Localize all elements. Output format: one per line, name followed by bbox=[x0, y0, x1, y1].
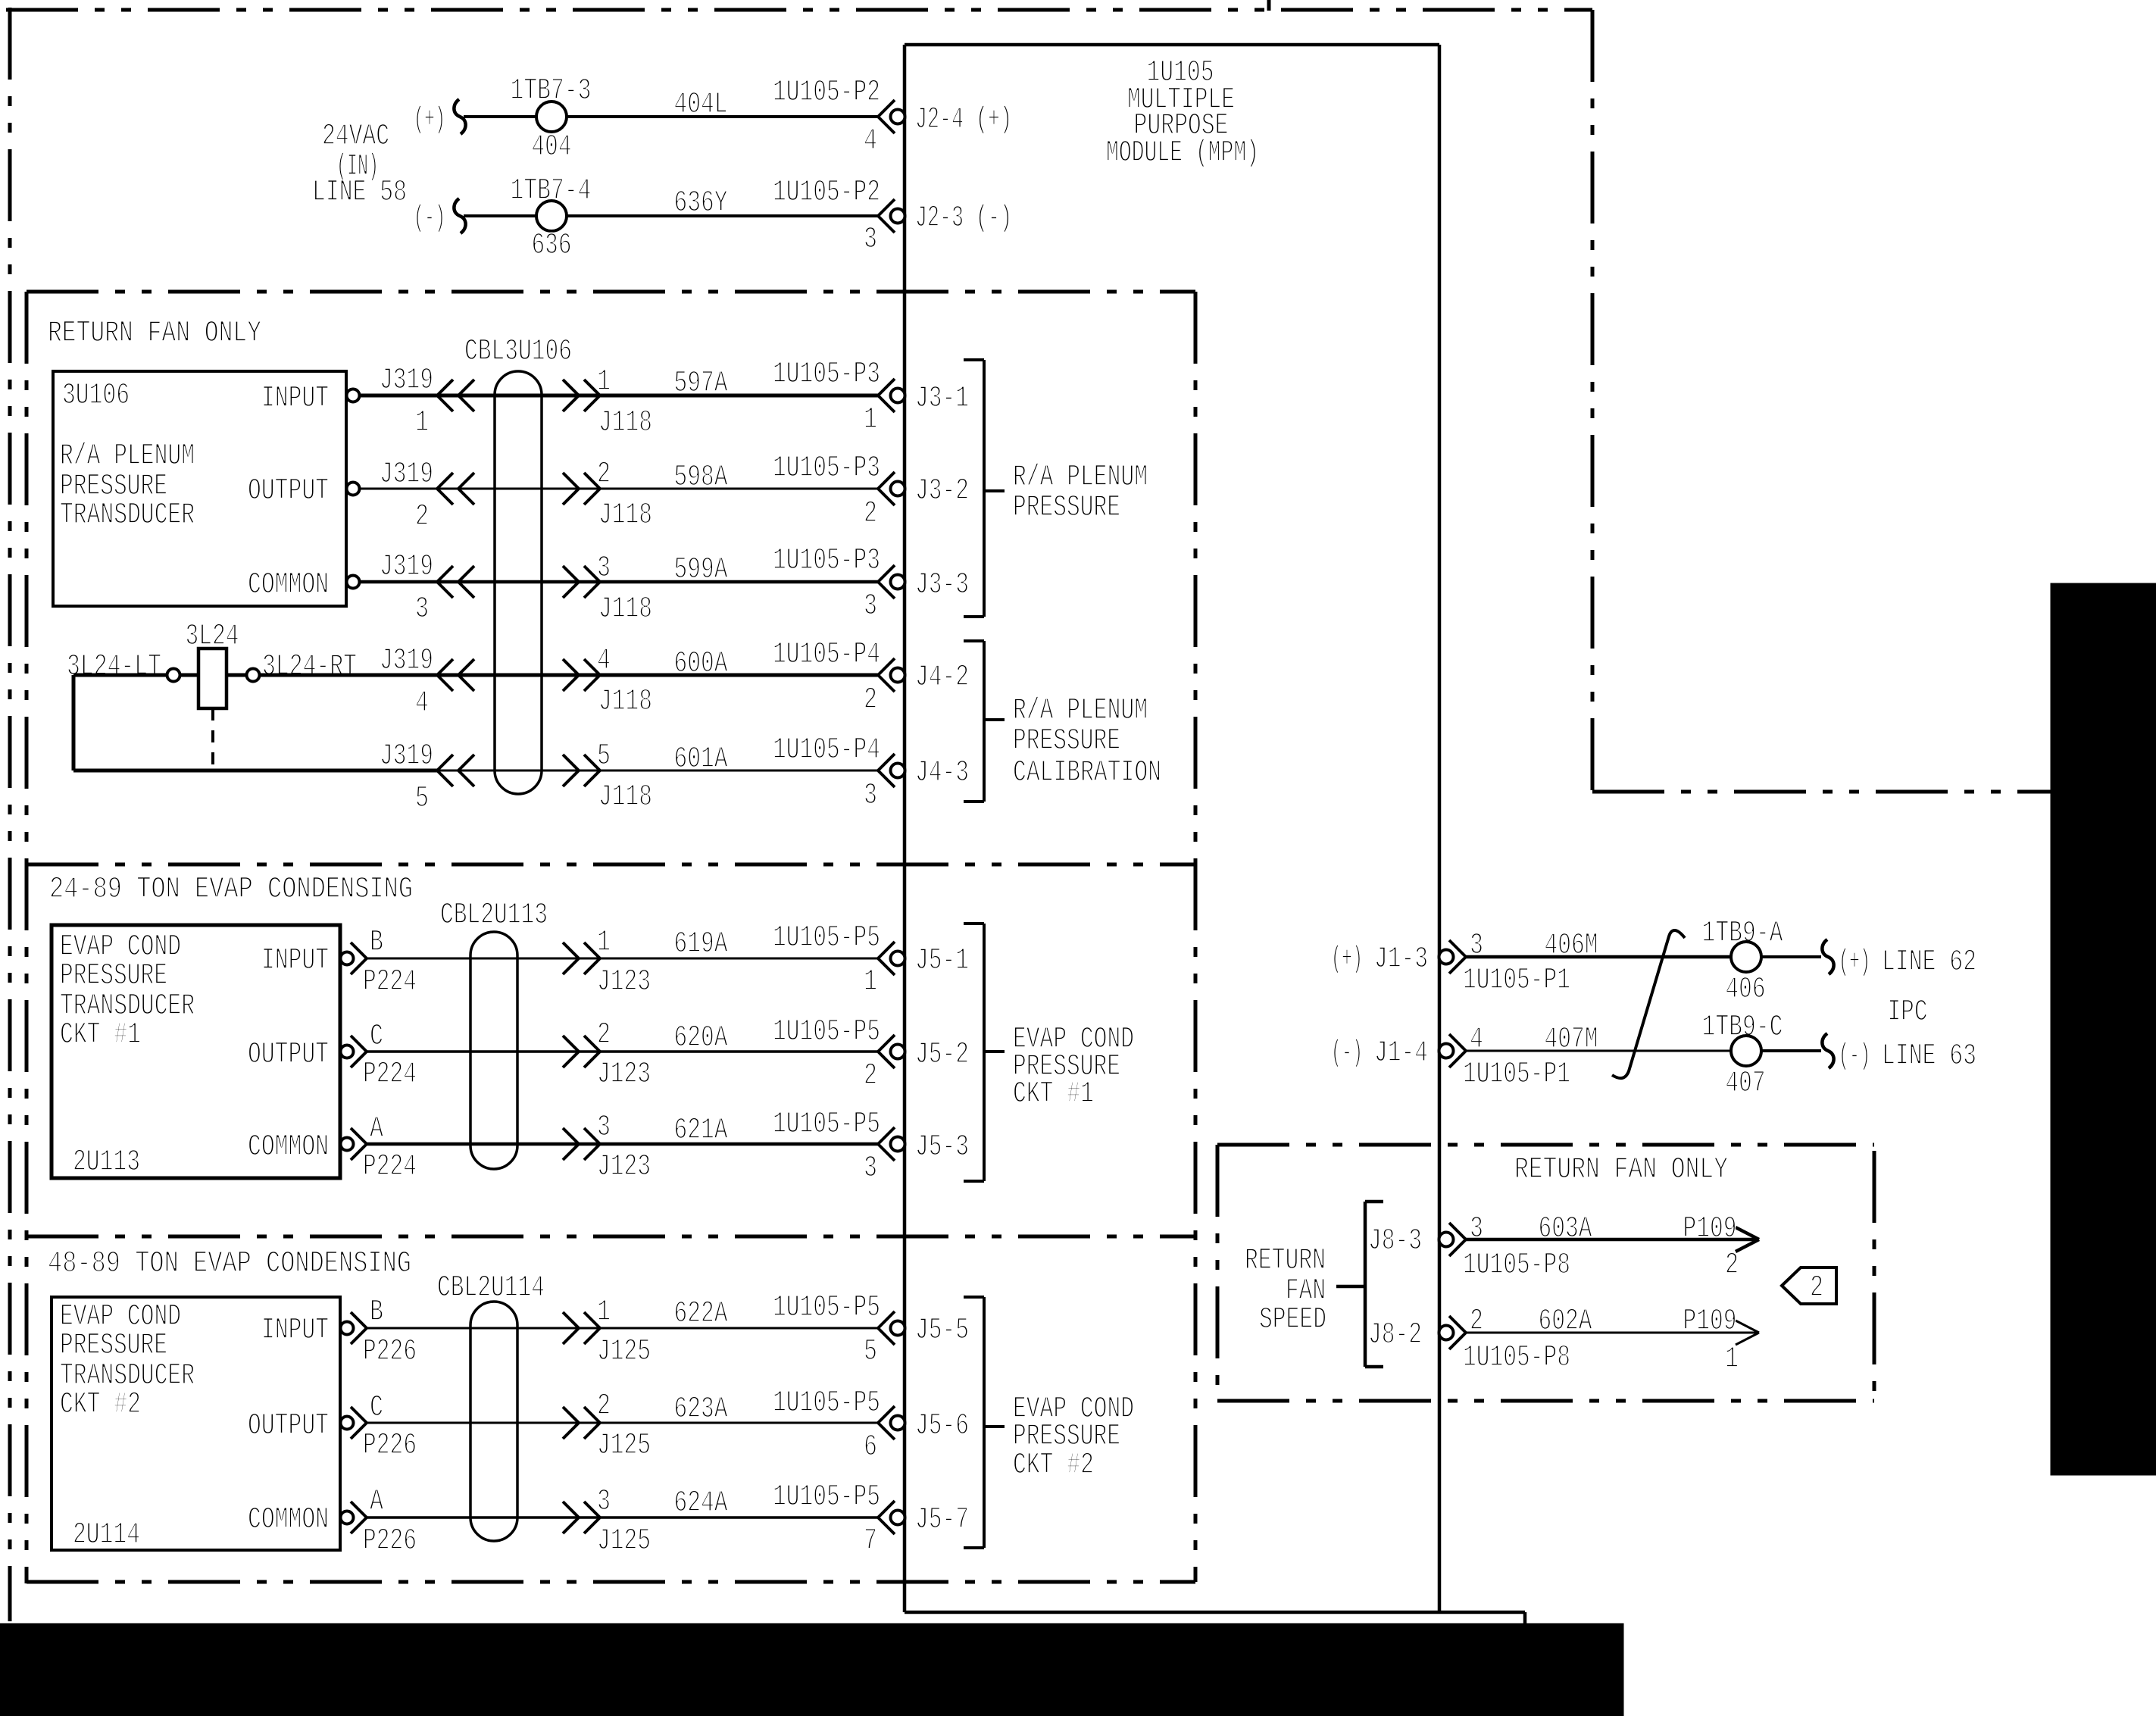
connector J5-1 bbox=[878, 942, 895, 958]
bracket EVAP COND PRESSURE CKT #1 bbox=[983, 924, 986, 1181]
svg-text:J118: J118 bbox=[598, 685, 652, 719]
svg-text:P226: P226 bbox=[363, 1429, 417, 1463]
svg-text:3: 3 bbox=[1470, 1212, 1483, 1246]
svg-text:J319: J319 bbox=[380, 364, 433, 398]
svg-text:B: B bbox=[370, 1296, 383, 1330]
svg-text:3: 3 bbox=[864, 223, 877, 257]
switch 3L24 actuator dashed bbox=[211, 708, 214, 770]
wire 597A from 3U106 to cable bbox=[359, 394, 878, 398]
svg-text:J3-3: J3-3 bbox=[915, 568, 969, 602]
svg-text:PRESSURE: PRESSURE bbox=[1013, 491, 1120, 525]
svg-text:1U105-P8: 1U105-P8 bbox=[1463, 1249, 1570, 1283]
svg-text:INPUT: INPUT bbox=[261, 382, 329, 416]
pin 3U106 circle row 1 bbox=[347, 389, 360, 402]
svg-text:J1-4: J1-4 bbox=[1374, 1036, 1428, 1071]
svg-text:J118: J118 bbox=[598, 406, 652, 440]
black bar bottom bbox=[0, 1624, 1623, 1716]
connector J319 pin 3 bbox=[437, 566, 453, 582]
svg-text:B: B bbox=[370, 926, 383, 960]
svg-text:CBL3U106: CBL3U106 bbox=[464, 335, 572, 369]
svg-text:3: 3 bbox=[1470, 929, 1483, 963]
region 24-89 TON border top bbox=[27, 863, 1195, 867]
svg-text:2: 2 bbox=[864, 497, 877, 531]
connector J123 pin 3 bbox=[584, 1128, 600, 1144]
svg-text:P224: P224 bbox=[363, 1150, 417, 1184]
svg-text:TRANSDUCER: TRANSDUCER bbox=[60, 499, 195, 533]
svg-text:4: 4 bbox=[597, 644, 611, 678]
right RETURN FAN ONLY region border bbox=[1217, 1143, 1874, 1147]
black bar right bbox=[2051, 583, 2156, 1475]
svg-text:619A: 619A bbox=[674, 927, 728, 961]
svg-text:2U113: 2U113 bbox=[73, 1146, 140, 1180]
svg-text:623A: 623A bbox=[674, 1392, 728, 1427]
svg-text:1: 1 bbox=[597, 926, 611, 960]
svg-text:404: 404 bbox=[532, 130, 572, 164]
outer phantom border top bbox=[6, 8, 1592, 12]
connector J123 pin 1 bbox=[584, 942, 600, 958]
svg-text:CKT #2: CKT #2 bbox=[1013, 1449, 1094, 1483]
bracket R/A PLENUM PRESSURE bbox=[983, 360, 986, 617]
connector J5-3 bbox=[878, 1127, 895, 1144]
svg-text:1: 1 bbox=[1725, 1342, 1739, 1377]
connector J1-4 bbox=[1439, 1044, 1454, 1058]
svg-text:P226: P226 bbox=[363, 1524, 417, 1558]
connector J118 pin 1 bbox=[584, 380, 600, 395]
svg-text:2: 2 bbox=[864, 683, 877, 717]
connector J125 pin 3 bbox=[584, 1502, 600, 1518]
svg-text:SPEED: SPEED bbox=[1259, 1303, 1326, 1337]
svg-text:J8-2: J8-2 bbox=[1368, 1318, 1422, 1352]
svg-text:CBL2U113: CBL2U113 bbox=[440, 899, 548, 933]
svg-text:R/A PLENUM: R/A PLENUM bbox=[1013, 694, 1148, 728]
svg-text:1U105-P2: 1U105-P2 bbox=[773, 176, 880, 210]
svg-text:A: A bbox=[370, 1485, 383, 1519]
svg-text:3: 3 bbox=[597, 1111, 611, 1145]
connector J319 pin 2 bbox=[437, 473, 453, 489]
connector J319 pin 4 bbox=[437, 659, 453, 675]
svg-text:600A: 600A bbox=[674, 647, 728, 681]
cable CBL3U106 oval bbox=[495, 371, 542, 794]
pin 2U114 A connector bbox=[341, 1511, 354, 1524]
svg-text:1TB7-4: 1TB7-4 bbox=[511, 174, 592, 208]
svg-text:J125: J125 bbox=[597, 1429, 651, 1463]
svg-text:COMMON: COMMON bbox=[248, 1130, 329, 1164]
wire 636Y segment to MPM bbox=[567, 214, 878, 217]
svg-text:7: 7 bbox=[864, 1524, 877, 1558]
svg-text:J118: J118 bbox=[598, 592, 652, 627]
crossover slash IPC bbox=[1612, 930, 1685, 1078]
svg-text:2U114: 2U114 bbox=[73, 1518, 140, 1552]
svg-text:624A: 624A bbox=[674, 1486, 728, 1521]
wire 602A to P109 bbox=[1466, 1332, 1759, 1334]
svg-text:A: A bbox=[370, 1112, 383, 1146]
svg-text:COMMON: COMMON bbox=[248, 568, 329, 602]
tick RETURN FAN SPEED bbox=[1336, 1285, 1365, 1289]
svg-text:J3-1: J3-1 bbox=[915, 382, 969, 416]
svg-text:INPUT: INPUT bbox=[261, 1314, 329, 1348]
wire 603A to P109 bbox=[1466, 1238, 1759, 1242]
svg-text:CKT #2: CKT #2 bbox=[60, 1388, 141, 1422]
connector J2 pin 3 bbox=[878, 199, 895, 216]
svg-text:24-89 TON EVAP CONDENSING: 24-89 TON EVAP CONDENSING bbox=[49, 873, 413, 907]
svg-text:J5-7: J5-7 bbox=[915, 1503, 969, 1537]
svg-text:J8-3: J8-3 bbox=[1368, 1224, 1422, 1258]
svg-text:597A: 597A bbox=[674, 367, 728, 401]
svg-text:J319: J319 bbox=[380, 458, 433, 492]
connector J319 pin 5 bbox=[437, 755, 453, 770]
svg-text:R/A PLENUM: R/A PLENUM bbox=[60, 439, 195, 474]
region RETURN FAN ONLY border top bbox=[27, 290, 1195, 294]
svg-text:J2-4 (+): J2-4 (+) bbox=[915, 103, 1012, 137]
svg-text:603A: 603A bbox=[1539, 1212, 1592, 1246]
svg-text:INPUT: INPUT bbox=[261, 944, 329, 978]
regions border right vertical bbox=[1194, 292, 1198, 1582]
pin 2U114 B connector bbox=[341, 1322, 354, 1335]
terminal 3L24-RT circle bbox=[247, 669, 260, 682]
svg-text:OUTPUT: OUTPUT bbox=[248, 474, 329, 508]
connector J3-1 bbox=[878, 379, 895, 395]
wire 406M to (+) LINE 62 bbox=[1761, 955, 1821, 958]
switch 3L24 body bbox=[198, 649, 227, 708]
svg-text:P109: P109 bbox=[1683, 1305, 1737, 1339]
svg-text:1U105-P8: 1U105-P8 bbox=[1463, 1341, 1570, 1375]
svg-text:1TB7-3: 1TB7-3 bbox=[511, 74, 592, 108]
svg-text:J123: J123 bbox=[597, 1058, 651, 1092]
connector J118 pin 5 bbox=[584, 755, 600, 770]
svg-text:RETURN FAN ONLY: RETURN FAN ONLY bbox=[1514, 1153, 1728, 1187]
svg-text:J5-1: J5-1 bbox=[915, 944, 969, 978]
wire 599A from 3U106 to cable bbox=[359, 580, 878, 584]
connector J1-3 bbox=[1439, 950, 1454, 964]
svg-text:(-): (-) bbox=[1331, 1036, 1363, 1071]
svg-text:598A: 598A bbox=[674, 461, 728, 495]
svg-text:406: 406 bbox=[1726, 973, 1766, 1007]
svg-text:1U105-P4: 1U105-P4 bbox=[773, 733, 880, 767]
svg-text:1U105-P1: 1U105-P1 bbox=[1463, 964, 1570, 998]
svg-text:406M: 406M bbox=[1545, 929, 1598, 963]
svg-text:2: 2 bbox=[597, 458, 611, 492]
svg-text:3: 3 bbox=[597, 1485, 611, 1519]
region 48-89 TON border top bbox=[27, 1235, 1195, 1239]
svg-text:48-89 TON EVAP CONDENSING: 48-89 TON EVAP CONDENSING bbox=[48, 1247, 411, 1281]
wire 619A bbox=[367, 958, 878, 960]
module 1U105 MPM box bbox=[905, 43, 1439, 47]
wire 407M to terminal bbox=[1466, 1050, 1731, 1052]
svg-text:CKT #1: CKT #1 bbox=[60, 1018, 141, 1052]
svg-text:4: 4 bbox=[1470, 1023, 1483, 1057]
svg-text:620A: 620A bbox=[674, 1021, 728, 1055]
svg-text:COMMON: COMMON bbox=[248, 1503, 329, 1537]
wire 406M to terminal bbox=[1466, 955, 1731, 959]
svg-text:622A: 622A bbox=[674, 1297, 728, 1331]
svg-text:P109: P109 bbox=[1683, 1212, 1737, 1246]
wire 622A bbox=[367, 1327, 878, 1330]
svg-text:J4-3: J4-3 bbox=[915, 756, 969, 790]
svg-text:J123: J123 bbox=[597, 1150, 651, 1184]
svg-text:PRESSURE: PRESSURE bbox=[60, 959, 167, 993]
svg-text:2: 2 bbox=[1470, 1305, 1483, 1339]
svg-text:(+): (+) bbox=[1331, 942, 1363, 977]
svg-text:407: 407 bbox=[1726, 1067, 1766, 1101]
outer phantom border right vertical bbox=[1591, 10, 1595, 792]
svg-text:J2-3 (-): J2-3 (-) bbox=[915, 202, 1012, 236]
wire 600A to cable bbox=[260, 674, 878, 677]
connector J2 pin 4 bbox=[878, 100, 895, 117]
svg-text:3L24-LT: 3L24-LT bbox=[67, 650, 161, 684]
svg-text:1: 1 bbox=[597, 1296, 611, 1330]
svg-text:J5-3: J5-3 bbox=[915, 1130, 969, 1164]
connector J3-3 bbox=[878, 565, 895, 582]
svg-text:1U105-P5: 1U105-P5 bbox=[773, 1015, 880, 1049]
svg-text:2: 2 bbox=[1725, 1249, 1739, 1283]
wire 620A bbox=[367, 1050, 878, 1053]
connector J118 pin 2 bbox=[584, 473, 600, 489]
svg-text:R/A PLENUM: R/A PLENUM bbox=[1013, 461, 1148, 495]
svg-text:PRESSURE: PRESSURE bbox=[60, 1329, 167, 1363]
svg-text:RETURN FAN ONLY: RETURN FAN ONLY bbox=[48, 317, 261, 351]
wire 3L24 left loop bbox=[73, 674, 167, 677]
transducer 2U113 box bbox=[52, 925, 340, 1178]
svg-text:J319: J319 bbox=[380, 550, 433, 584]
svg-text:4: 4 bbox=[864, 124, 877, 158]
wire 621A bbox=[367, 1142, 878, 1146]
svg-text:IPC: IPC bbox=[1888, 996, 1928, 1030]
svg-text:3: 3 bbox=[864, 779, 877, 813]
svg-text:1U105-P4: 1U105-P4 bbox=[773, 638, 880, 672]
svg-text:1U105-P2: 1U105-P2 bbox=[773, 76, 880, 110]
svg-text:J118: J118 bbox=[598, 499, 652, 533]
svg-text:J5-5: J5-5 bbox=[915, 1314, 969, 1348]
wire 623A bbox=[367, 1422, 878, 1424]
connector J5-2 bbox=[878, 1035, 895, 1052]
svg-text:407M: 407M bbox=[1545, 1023, 1598, 1057]
svg-text:P224: P224 bbox=[363, 965, 417, 999]
svg-text:636Y: 636Y bbox=[674, 186, 728, 220]
svg-text:J123: J123 bbox=[597, 965, 651, 999]
bracket R/A PLENUM PRESSURE CALIBRATION bbox=[983, 641, 986, 802]
svg-text:6: 6 bbox=[864, 1430, 877, 1464]
pin 3U106 circle row 3 bbox=[347, 576, 360, 589]
svg-text:(+): (+) bbox=[414, 103, 445, 137]
svg-text:J125: J125 bbox=[597, 1335, 651, 1369]
connector J319 pin 1 bbox=[437, 380, 453, 395]
region 48-89 TON border bottom bbox=[27, 1580, 1195, 1584]
svg-text:1U105-P3: 1U105-P3 bbox=[773, 452, 880, 486]
svg-text:C: C bbox=[370, 1020, 383, 1054]
svg-text:1U105-P1: 1U105-P1 bbox=[1463, 1058, 1570, 1092]
left regions border left bbox=[25, 292, 29, 1583]
svg-text:1: 1 bbox=[864, 403, 877, 437]
svg-text:3L24-RT: 3L24-RT bbox=[262, 650, 357, 684]
svg-text:2: 2 bbox=[1810, 1271, 1823, 1305]
wire 404L segment to MPM bbox=[567, 115, 878, 118]
svg-text:(-): (-) bbox=[1839, 1039, 1870, 1074]
svg-text:LINE 62: LINE 62 bbox=[1882, 946, 1976, 980]
svg-text:1: 1 bbox=[597, 365, 611, 399]
svg-text:P226: P226 bbox=[363, 1335, 417, 1369]
pin 3U106 circle row 2 bbox=[347, 483, 360, 495]
svg-text:OUTPUT: OUTPUT bbox=[248, 1038, 329, 1072]
svg-text:599A: 599A bbox=[674, 553, 728, 587]
svg-text:J319: J319 bbox=[380, 739, 433, 774]
outer phantom border left bbox=[8, 8, 12, 1621]
terminal 3L24-LT circle bbox=[167, 669, 180, 682]
svg-text:5: 5 bbox=[597, 739, 611, 774]
pin 2U113 B connector bbox=[341, 952, 354, 965]
svg-text:LINE 58: LINE 58 bbox=[312, 176, 407, 210]
svg-text:J125: J125 bbox=[597, 1524, 651, 1558]
svg-text:CBL2U114: CBL2U114 bbox=[437, 1271, 545, 1305]
svg-text:1U105-P5: 1U105-P5 bbox=[773, 1386, 880, 1421]
connector J8-3 bbox=[1439, 1233, 1454, 1247]
svg-text:P224: P224 bbox=[363, 1058, 417, 1092]
svg-text:J3-2: J3-2 bbox=[915, 474, 969, 508]
connector J125 pin 1 bbox=[584, 1312, 600, 1328]
connector J118 pin 3 bbox=[584, 566, 600, 582]
svg-text:5: 5 bbox=[415, 782, 429, 816]
svg-text:404L: 404L bbox=[674, 88, 728, 122]
svg-text:3: 3 bbox=[864, 589, 877, 624]
bracket EVAP COND PRESSURE CKT #2 bbox=[983, 1297, 986, 1548]
svg-text:3U106: 3U106 bbox=[62, 379, 130, 413]
terminal 1TB7-3 circle 404 bbox=[536, 102, 567, 132]
svg-text:621A: 621A bbox=[674, 1114, 728, 1148]
svg-text:J1-3: J1-3 bbox=[1374, 942, 1428, 977]
connector J5-6 bbox=[878, 1406, 895, 1423]
connector J8-2 bbox=[1439, 1326, 1454, 1340]
flag note 2 bbox=[1782, 1267, 1836, 1304]
svg-text:J5-2: J5-2 bbox=[915, 1038, 969, 1072]
svg-text:2: 2 bbox=[864, 1059, 877, 1093]
svg-text:3: 3 bbox=[597, 552, 611, 586]
svg-text:1U105-P5: 1U105-P5 bbox=[773, 1108, 880, 1142]
svg-text:1U105-P5: 1U105-P5 bbox=[773, 1291, 880, 1325]
svg-text:601A: 601A bbox=[674, 742, 728, 777]
svg-text:2: 2 bbox=[597, 1389, 611, 1424]
svg-text:24VAC: 24VAC bbox=[322, 120, 389, 154]
wire 407M to (-) LINE 63 bbox=[1761, 1049, 1821, 1052]
connector J118 pin 4 bbox=[584, 659, 600, 675]
svg-text:(+): (+) bbox=[1839, 946, 1870, 980]
transducer 2U114 box bbox=[52, 1297, 340, 1550]
cable CBL2U114 oval bbox=[470, 1302, 517, 1541]
pin 2U114 C connector bbox=[341, 1417, 354, 1430]
svg-text:1U105-P3: 1U105-P3 bbox=[773, 544, 880, 578]
svg-text:1U105-P5: 1U105-P5 bbox=[773, 921, 880, 955]
svg-text:PRESSURE: PRESSURE bbox=[1013, 724, 1120, 758]
terminal 1TB7-4 circle 636 bbox=[536, 201, 567, 231]
phantom border tick top bbox=[1267, 0, 1271, 11]
wire 598A from 3U106 to cable bbox=[359, 488, 878, 490]
svg-text:1U105-P5: 1U105-P5 bbox=[773, 1480, 880, 1514]
svg-text:CALIBRATION: CALIBRATION bbox=[1013, 756, 1161, 790]
wire 3L24 to resistor bbox=[180, 674, 199, 677]
transducer 3U106 box bbox=[53, 371, 346, 606]
wire 624A bbox=[367, 1516, 878, 1519]
bracket J8 bbox=[1364, 1202, 1367, 1367]
connector J3-2 bbox=[878, 472, 895, 489]
outer phantom border right horizontal bbox=[1592, 790, 2053, 794]
pin 2U113 C connector bbox=[341, 1046, 354, 1058]
svg-text:1: 1 bbox=[415, 406, 429, 440]
svg-text:J319: J319 bbox=[380, 644, 433, 678]
svg-text:3: 3 bbox=[864, 1152, 877, 1186]
svg-text:4: 4 bbox=[415, 686, 429, 720]
wire 601A to cable bbox=[437, 770, 878, 772]
svg-text:636: 636 bbox=[532, 229, 572, 263]
svg-text:LINE 63: LINE 63 bbox=[1882, 1039, 1976, 1074]
svg-text:602A: 602A bbox=[1539, 1305, 1592, 1339]
connector J5-7 bbox=[878, 1501, 895, 1518]
pin 2U113 A connector bbox=[341, 1138, 354, 1151]
svg-text:1: 1 bbox=[864, 965, 877, 999]
svg-text:J118: J118 bbox=[598, 780, 652, 814]
svg-text:RETURN: RETURN bbox=[1245, 1244, 1326, 1278]
svg-text:2: 2 bbox=[415, 500, 429, 534]
connector J125 pin 2 bbox=[584, 1407, 600, 1423]
svg-text:2: 2 bbox=[597, 1018, 611, 1052]
svg-text:J5-6: J5-6 bbox=[915, 1409, 969, 1443]
connector J4-2 bbox=[878, 658, 895, 675]
svg-text:J4-2: J4-2 bbox=[915, 661, 969, 695]
svg-text:1U105-P3: 1U105-P3 bbox=[773, 358, 880, 392]
svg-text:(-): (-) bbox=[414, 202, 445, 236]
svg-text:3: 3 bbox=[415, 592, 429, 627]
svg-text:OUTPUT: OUTPUT bbox=[248, 1409, 329, 1443]
connector J5-5 bbox=[878, 1311, 895, 1328]
svg-text:5: 5 bbox=[864, 1335, 877, 1369]
svg-text:MODULE (MPM): MODULE (MPM) bbox=[1106, 136, 1259, 170]
svg-text:C: C bbox=[370, 1391, 383, 1425]
cable CBL2U113 oval bbox=[470, 932, 517, 1169]
connector J123 pin 2 bbox=[584, 1036, 600, 1052]
svg-text:CKT #1: CKT #1 bbox=[1013, 1077, 1094, 1111]
connector J4-3 bbox=[878, 754, 895, 770]
